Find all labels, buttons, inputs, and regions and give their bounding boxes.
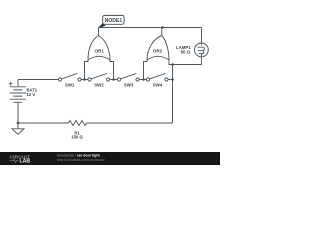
svg-text:NODE1: NODE1 — [105, 18, 123, 24]
switch SW4 lever — [150, 73, 166, 79]
svg-text:LAB: LAB — [20, 159, 31, 165]
switch SW1 terminals — [58, 78, 61, 81]
node flag NODE1 pointer — [98, 23, 106, 29]
svg-text:SW1: SW1 — [65, 82, 75, 87]
node: OR1 left leg junction — [83, 78, 86, 81]
svg-text:OR2: OR2 — [153, 49, 163, 54]
ground symbol — [12, 123, 24, 134]
or-gate OR2 body — [147, 36, 169, 61]
op-amp gate OR1 output stub — [98, 28, 100, 36]
switch SW4 terminals — [146, 78, 149, 81]
svg-text:SW4: SW4 — [153, 82, 163, 87]
svg-text:OR1: OR1 — [94, 49, 104, 54]
wire: switch bus battery to SW1 — [18, 79, 58, 81]
wire: SW4 to right drop — [168, 79, 172, 81]
node: battery / ground / rail junction — [17, 122, 20, 125]
svg-text:SW2: SW2 — [94, 82, 104, 87]
watermark bar — [0, 152, 220, 165]
wire: SW1 to SW2 — [81, 79, 88, 81]
switch SW2 terminals — [88, 78, 91, 81]
svg-text:50 Ω: 50 Ω — [181, 50, 191, 55]
switch SW3 terminals — [117, 78, 120, 81]
wire: battery top stub — [17, 80, 19, 87]
wire: right drop from lamp return to bottom rail — [172, 65, 174, 124]
wire: SW3 to SW4 — [139, 79, 146, 81]
wire: OR1 left input leg — [85, 60, 89, 80]
switch SW3 lever — [121, 73, 137, 79]
svg-text:SW3: SW3 — [124, 82, 134, 87]
battery BAT1 plates — [10, 87, 26, 103]
svg-text:mrosland2 / car door light: mrosland2 / car door light — [57, 153, 101, 157]
node flag NODE1 box — [103, 15, 124, 24]
svg-text:150 Ω: 150 Ω — [71, 135, 83, 140]
wire: OR2 left input leg — [144, 60, 148, 80]
wire: OR2 right input leg to lamp return — [169, 60, 173, 65]
wire: OR1 right input leg — [110, 60, 114, 80]
node: junction lamp return / OR2 input / drop wire — [171, 63, 174, 66]
wire: top node bus from OR1 output to lamp — [99, 27, 202, 29]
node: switch bus / right drop junction — [171, 78, 174, 81]
node NODE1 junction dot at OR2 output — [161, 26, 164, 29]
wire: SW2 to SW3 — [110, 79, 118, 81]
lamp LAMP1 top feed wire — [201, 28, 203, 44]
wire: bottom rail right of R1 — [87, 122, 173, 124]
battery BAT1 plus sign — [9, 82, 13, 86]
lamp LAMP1 filament — [197, 43, 204, 57]
wire: battery bottom stub to rail — [17, 102, 19, 123]
svg-text:12 V: 12 V — [27, 92, 36, 97]
wire: bottom rail left of R1 — [18, 122, 69, 124]
wire: lamp bottom return — [173, 57, 202, 65]
lamp LAMP1 circle — [195, 43, 209, 57]
or-gate OR2 output stub — [161, 28, 163, 36]
node: OR2 left leg junction — [142, 78, 145, 81]
switch SW1 lever — [62, 73, 78, 79]
svg-text:http://circuitlab.com/cmaswxw: http://circuitlab.com/cmaswxw — [57, 158, 105, 162]
or-gate OR1 body — [88, 36, 110, 61]
switch SW2 lever — [91, 73, 107, 79]
node: OR1 right leg junction — [112, 78, 115, 81]
resistor R1 zigzag — [69, 120, 87, 125]
